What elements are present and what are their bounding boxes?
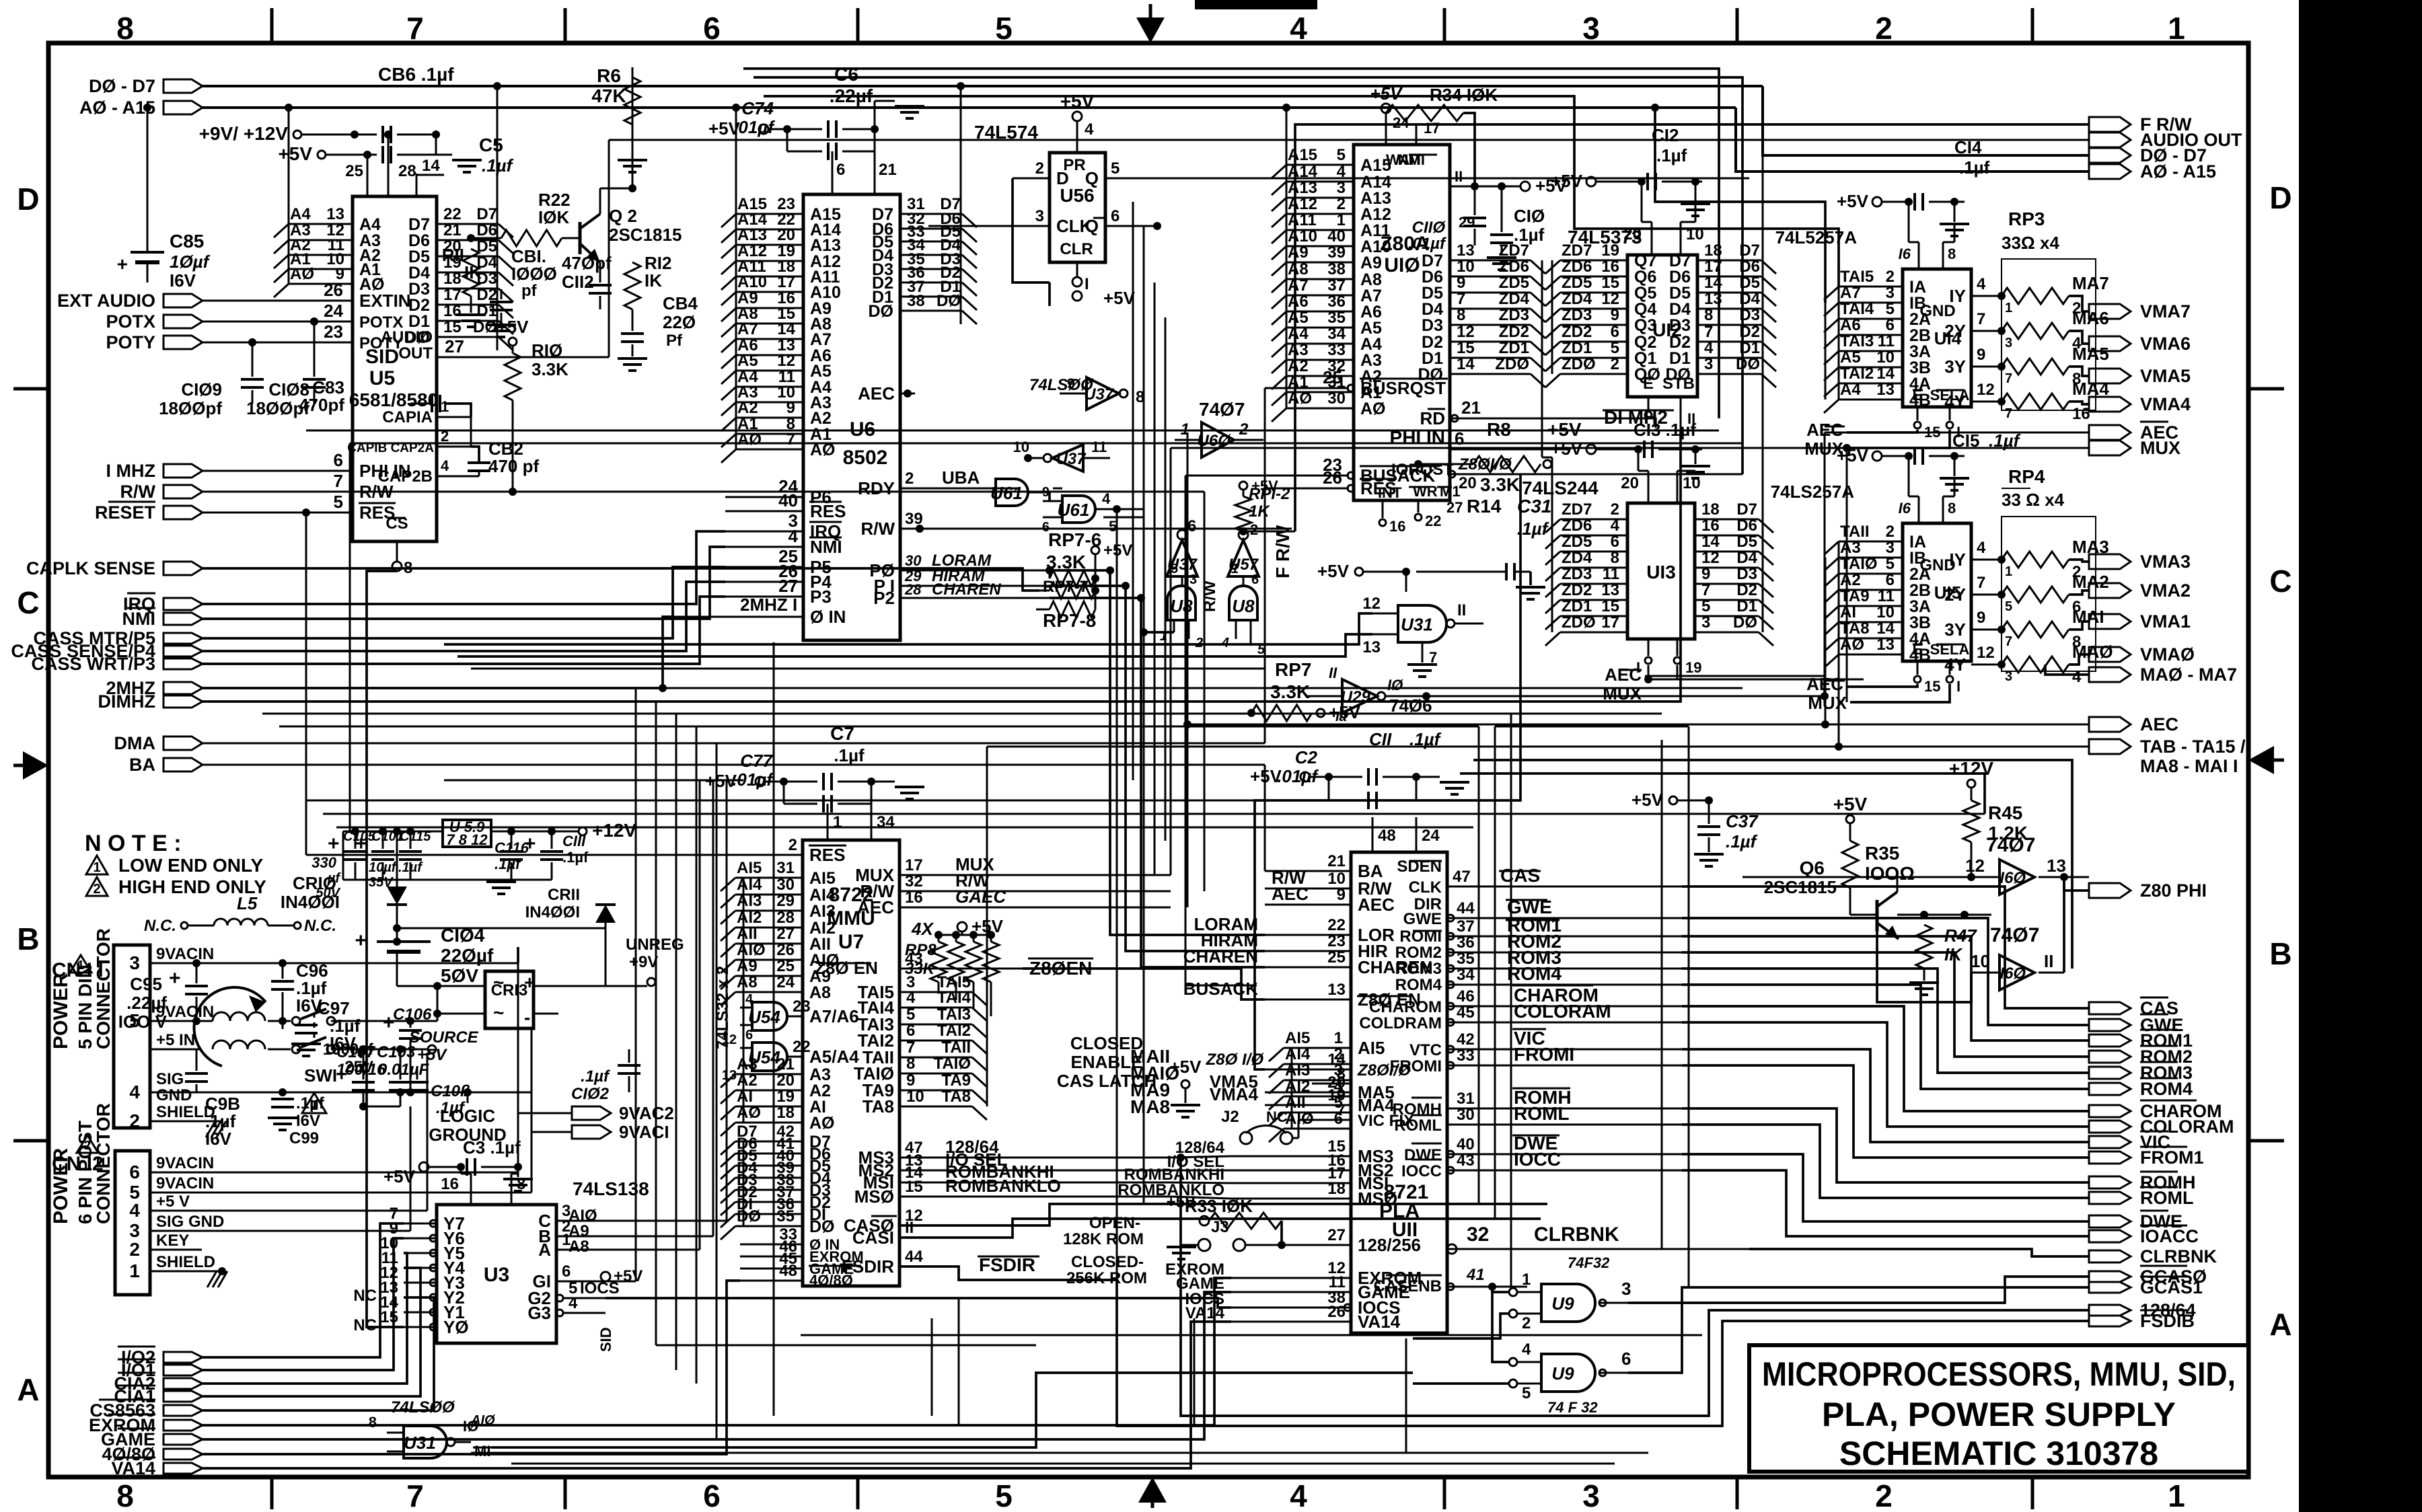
SHIELD ground xyxy=(202,1121,222,1123)
connector tag GCAS0 xyxy=(2089,1271,2131,1282)
svg-text:2: 2 xyxy=(1195,636,1203,650)
svg-text:ROM4: ROM4 xyxy=(1507,963,1562,984)
svg-text:A12: A12 xyxy=(1288,195,1317,213)
svg-text:C95: C95 xyxy=(130,974,162,994)
svg-text:CLR: CLR xyxy=(1060,240,1093,258)
svg-text:+12V: +12V xyxy=(592,820,636,841)
svg-text:ZD6: ZD6 xyxy=(1562,258,1592,276)
svg-text:29: 29 xyxy=(776,892,795,910)
svg-text:ROM3: ROM3 xyxy=(1395,960,1442,978)
svg-text:26: 26 xyxy=(1327,1303,1346,1321)
svg-text:7: 7 xyxy=(786,430,795,449)
svg-text:ZD1: ZD1 xyxy=(1499,339,1529,357)
svg-text:MAI: MAI xyxy=(2072,607,2104,627)
U7 pin GAME 45 xyxy=(740,1268,803,1270)
svg-text:I6: I6 xyxy=(1899,245,1911,262)
svg-text:+: + xyxy=(524,833,536,855)
svg-text:256K ROM: 256K ROM xyxy=(1066,1269,1147,1287)
svg-text:D: D xyxy=(1056,168,1069,188)
svg-text:5: 5 xyxy=(1337,146,1346,164)
U5 pin CAP2B xyxy=(437,476,471,478)
svg-text:MA7: MA7 xyxy=(2072,273,2109,293)
svg-text:2: 2 xyxy=(93,882,100,897)
wire LORAM xyxy=(1050,570,1265,935)
connector tag CHAROM xyxy=(2089,1105,2131,1117)
connector tag 2MHZ xyxy=(163,682,203,694)
inverter U57 up xyxy=(1228,540,1259,576)
svg-text:ZD3: ZD3 xyxy=(1499,306,1529,324)
wire Z80EN across xyxy=(1023,969,1265,999)
svg-text:IY: IY xyxy=(1949,550,1966,570)
svg-text:24: 24 xyxy=(776,973,795,991)
svg-text:40: 40 xyxy=(1457,1135,1475,1154)
wire CIA1 to U3 Y4 xyxy=(203,1268,420,1396)
vertical x1775 xyxy=(1194,1318,1196,1426)
svg-text:6: 6 xyxy=(1111,207,1120,225)
U15 left pins 1A-4B xyxy=(1839,541,1903,543)
svg-text:8: 8 xyxy=(906,1055,915,1073)
IC U56 74LS74 xyxy=(1050,153,1105,262)
svg-text:1: 1 xyxy=(2005,301,2012,315)
svg-text:6: 6 xyxy=(562,1262,571,1281)
svg-text:27: 27 xyxy=(778,576,798,596)
svg-text:A9: A9 xyxy=(737,957,758,975)
svg-text:1: 1 xyxy=(1231,562,1239,576)
svg-text:6: 6 xyxy=(334,450,343,470)
svg-text:13: 13 xyxy=(1362,638,1381,656)
U11 pin Z80I/O 14 xyxy=(1265,1069,1351,1071)
svg-text:7: 7 xyxy=(2005,371,2012,386)
U7 right pins MS3-MS0 xyxy=(900,1157,1171,1159)
CN11 pins xyxy=(150,962,202,965)
ground for U6 caps xyxy=(875,100,895,102)
wire top right bundle 1 xyxy=(1766,43,2220,61)
svg-text:VA14: VA14 xyxy=(111,1458,155,1478)
svg-text:2: 2 xyxy=(1886,268,1895,286)
wire TA feed to U14 xyxy=(764,96,1839,287)
svg-text:16: 16 xyxy=(2072,405,2090,423)
svg-text:AEC: AEC xyxy=(857,897,894,917)
vertical channel left x945 xyxy=(635,688,637,1281)
svg-text:2: 2 xyxy=(1337,195,1346,213)
svg-text:6: 6 xyxy=(1611,533,1619,551)
svg-text:C6: C6 xyxy=(834,64,858,85)
inverter U29 7406 xyxy=(1342,679,1377,713)
svg-text:4: 4 xyxy=(1290,1478,1307,1512)
svg-text:DØ: DØ xyxy=(937,292,961,310)
svg-text:6: 6 xyxy=(836,161,845,179)
svg-text:74 F 32: 74 F 32 xyxy=(1547,1399,1598,1416)
connector tag R/W xyxy=(163,485,203,498)
svg-text:A3: A3 xyxy=(737,1055,758,1073)
U56 pin CLR 1 +5V xyxy=(1076,262,1078,277)
svg-text:µf: µf xyxy=(327,871,342,886)
svg-text:2: 2 xyxy=(1611,500,1619,519)
svg-text:+5V: +5V xyxy=(614,1267,643,1285)
note triangle 2 HIGH END ONLY xyxy=(86,877,108,896)
capacitor C85 10uf 16V xyxy=(147,108,149,252)
wire channel extra 1 xyxy=(262,713,1511,715)
svg-text:YØ: YØ xyxy=(443,1317,469,1337)
svg-text:+: + xyxy=(169,967,181,989)
U56 pin Q 5 xyxy=(1105,178,1749,180)
capacitor C99 xyxy=(271,1098,294,1100)
svg-text:ZD3: ZD3 xyxy=(1562,565,1592,583)
wire AUDIO OUT vertical to tag xyxy=(608,140,610,357)
connector tag ROM3 xyxy=(2089,1067,2131,1079)
svg-text:UI3: UI3 xyxy=(1646,562,1676,582)
svg-text:43: 43 xyxy=(905,950,923,968)
connector tag 1MHZ xyxy=(163,464,203,478)
wire FSDIB long xyxy=(1117,1280,2089,1426)
U5 D-bus trunk up to D0-D7 bus xyxy=(497,86,499,350)
svg-text:Q3: Q3 xyxy=(1634,316,1656,335)
ground U59 caps xyxy=(444,879,552,881)
connector tag EXROM xyxy=(163,1420,203,1431)
wire A feed to U14 xyxy=(1655,108,1825,303)
svg-text:BUSRQST: BUSRQST xyxy=(1360,378,1446,398)
svg-text:MA4: MA4 xyxy=(2072,379,2109,399)
svg-text:15: 15 xyxy=(1601,274,1619,292)
wire CHAREN xyxy=(1050,598,1265,967)
svg-text:MA6: MA6 xyxy=(2072,308,2109,328)
svg-text:6: 6 xyxy=(745,1028,753,1043)
svg-text:CASS WRT/P3: CASS WRT/P3 xyxy=(31,654,155,674)
connector tag DWE xyxy=(2089,1215,2131,1227)
svg-text:13: 13 xyxy=(1876,381,1895,399)
svg-text:8502: 8502 xyxy=(843,447,888,469)
svg-text:PLA, POWER SUPPLY: PLA, POWER SUPPLY xyxy=(1822,1396,2176,1433)
svg-text:3: 3 xyxy=(1621,1279,1631,1299)
wire long h y1985 xyxy=(801,1334,1702,1336)
svg-text:13: 13 xyxy=(1876,636,1895,654)
svg-text:A2: A2 xyxy=(1840,571,1861,589)
wire ROM2 to tag xyxy=(1682,952,2089,1057)
svg-text:R6: R6 xyxy=(597,65,621,86)
svg-text:6: 6 xyxy=(703,11,721,46)
U5 pin RES xyxy=(203,512,353,514)
svg-text:38: 38 xyxy=(907,292,925,310)
power rail lower caps xyxy=(343,879,444,881)
U7 pin phi IN 33 xyxy=(740,1244,803,1246)
wire AEC vertical xyxy=(1187,432,1189,907)
svg-text:ZDØ: ZDØ xyxy=(1562,355,1596,373)
svg-text:ZDØ: ZDØ xyxy=(1562,613,1596,632)
+5V terminal mid xyxy=(1181,1080,1189,1088)
svg-text:ROM2: ROM2 xyxy=(1395,944,1442,962)
svg-text:2: 2 xyxy=(1611,355,1619,373)
svg-text:TAI2: TAI2 xyxy=(1840,365,1874,383)
wire top channel y102 xyxy=(743,69,1719,418)
svg-text:14: 14 xyxy=(1876,619,1895,638)
svg-text:74L5257A: 74L5257A xyxy=(1775,227,1858,248)
svg-text:37: 37 xyxy=(1457,917,1475,936)
connector tag CAPLK SENSE xyxy=(163,562,203,575)
svg-text:C99: C99 xyxy=(289,1129,319,1147)
svg-text:pf: pf xyxy=(521,282,538,300)
connector tag AEC 2 xyxy=(2089,717,2131,732)
U10 ZD trunk xyxy=(1541,260,1543,457)
svg-text:D1: D1 xyxy=(1736,597,1757,615)
svg-text:5: 5 xyxy=(1171,562,1178,576)
transformer coil +5IN xyxy=(213,1041,230,1049)
connector tag VMA5 xyxy=(2089,369,2131,383)
svg-text:WR: WR xyxy=(1413,483,1438,500)
connector tag COLORAM xyxy=(2089,1121,2131,1133)
svg-text:CONNECTOR: CONNECTOR xyxy=(93,928,114,1049)
svg-text:ZD7: ZD7 xyxy=(1562,241,1592,260)
+5V R35 100ohm xyxy=(1846,815,1854,823)
U12 D bus trunk to top xyxy=(1762,155,1764,387)
svg-text:F R/W: F R/W xyxy=(1272,525,1293,578)
wire MS2 I/O SEL join xyxy=(1171,1170,1231,1172)
svg-text:RP7: RP7 xyxy=(1275,659,1311,680)
switch link dashed xyxy=(314,1012,316,1043)
svg-text:.01µf: .01µf xyxy=(1408,235,1446,253)
U5 left pins A4-A0 xyxy=(289,223,353,225)
wire TA bus to tag xyxy=(986,747,988,992)
svg-text:Ià: Ià xyxy=(1335,710,1347,724)
wire U3 outputs up xyxy=(605,1220,727,1222)
svg-text:18ØØpf: 18ØØpf xyxy=(246,398,309,418)
svg-text:9: 9 xyxy=(1701,565,1710,583)
svg-text:R35: R35 xyxy=(1865,843,1899,864)
svg-text:P2: P2 xyxy=(873,588,895,608)
svg-text:DØ - D7: DØ - D7 xyxy=(89,76,155,96)
svg-text:8: 8 xyxy=(1457,306,1465,324)
svg-text:EXT AUDIO: EXT AUDIO xyxy=(57,291,155,311)
svg-text:+5V: +5V xyxy=(708,118,741,139)
svg-text:MSØ: MSØ xyxy=(854,1186,894,1207)
U10 pin RES 26 xyxy=(1265,488,1349,490)
svg-text:8: 8 xyxy=(116,1478,134,1512)
svg-text:7: 7 xyxy=(1977,310,1985,328)
svg-text:8: 8 xyxy=(1611,549,1619,567)
svg-text:.1µf: .1µf xyxy=(1517,519,1549,539)
wire IRQ xyxy=(203,531,725,604)
U7 pin 40/80 48 xyxy=(740,1280,803,1282)
wire GWE to tag xyxy=(1682,918,2089,1025)
svg-text:D7: D7 xyxy=(476,205,497,223)
svg-text:AØ: AØ xyxy=(809,1114,835,1133)
svg-text:7: 7 xyxy=(1457,290,1465,308)
svg-text:D6: D6 xyxy=(476,221,497,239)
svg-text:J3: J3 xyxy=(1211,1218,1229,1236)
connector tag ROML xyxy=(2089,1192,2131,1204)
bridge rectifier CR13 xyxy=(485,971,534,1028)
svg-text:U9: U9 xyxy=(1551,1293,1574,1314)
U7 pin RES 2 xyxy=(740,854,803,856)
svg-text:.1µf: .1µf xyxy=(1656,145,1687,165)
svg-text:C2: C2 xyxy=(1295,747,1318,767)
svg-text:11: 11 xyxy=(1603,565,1619,583)
svg-text:11: 11 xyxy=(1878,332,1895,350)
svg-text:16: 16 xyxy=(1389,518,1405,535)
connector tag TA8-TA15/MA8-MA11 xyxy=(2089,739,2131,754)
svg-text:20: 20 xyxy=(1459,474,1477,492)
wires to CR13 xyxy=(437,985,485,987)
svg-text:M1: M1 xyxy=(1440,483,1461,500)
connector tag CASS MTR/P5 xyxy=(163,633,203,644)
svg-text:ZD5: ZD5 xyxy=(1562,533,1592,551)
wire nested loop right xyxy=(1473,760,2072,969)
U13 ZD trunk 2 xyxy=(1551,457,1553,632)
svg-text:17: 17 xyxy=(777,273,795,291)
svg-text:47Øpf: 47Øpf xyxy=(562,253,612,273)
capacitor C104 220uf 50V xyxy=(393,938,401,946)
svg-text:2: 2 xyxy=(1250,521,1258,538)
svg-text:A5: A5 xyxy=(737,352,758,370)
U14 top pins 16 8 cap C14 xyxy=(1918,242,1920,269)
U3 top pins 16 8 cap C3 xyxy=(470,1174,472,1205)
svg-text:6: 6 xyxy=(1886,571,1895,589)
svg-text:12: 12 xyxy=(722,1032,737,1047)
svg-text:A8: A8 xyxy=(568,1238,589,1256)
svg-text:8: 8 xyxy=(1948,500,1956,517)
svg-text:AII: AII xyxy=(737,925,758,943)
U10 top pin 24 WAIT +5V xyxy=(1385,113,1387,145)
U56 pin D 2 xyxy=(1013,178,1050,180)
svg-text:ZD3: ZD3 xyxy=(1562,306,1592,324)
svg-text:35: 35 xyxy=(776,1207,795,1225)
svg-text:A11: A11 xyxy=(1288,211,1317,229)
svg-text:3.3K: 3.3K xyxy=(531,359,568,379)
U6 left address pins A15-A0 xyxy=(736,213,803,215)
svg-text:AI3: AI3 xyxy=(809,902,836,921)
svg-text:TA9: TA9 xyxy=(941,1071,971,1090)
svg-text:D3: D3 xyxy=(1669,316,1691,335)
svg-text:3Y: 3Y xyxy=(1944,356,1966,377)
svg-text:TAI4: TAI4 xyxy=(937,989,971,1007)
svg-text:34: 34 xyxy=(1327,325,1346,343)
U5 pin CAP1A xyxy=(437,416,471,418)
svg-text:74F32: 74F32 xyxy=(1568,1254,1610,1271)
svg-text:32: 32 xyxy=(1467,1223,1489,1246)
svg-text:3.3K: 3.3K xyxy=(1270,681,1310,702)
U6 pin AEC xyxy=(900,393,915,395)
connector tag ROM1 xyxy=(2089,1034,2131,1047)
svg-text:ROMBANKLO: ROMBANKLO xyxy=(945,1176,1061,1196)
svg-text:ROM4: ROM4 xyxy=(2140,1079,2193,1099)
svg-text:48: 48 xyxy=(1378,827,1396,845)
svg-text:A15: A15 xyxy=(1360,156,1391,175)
svg-text:A: A xyxy=(17,1372,39,1407)
svg-text:Ø IN: Ø IN xyxy=(810,607,846,627)
svg-text:9: 9 xyxy=(1977,609,1985,627)
svg-text:10: 10 xyxy=(1876,348,1895,367)
svg-text:Pf: Pf xyxy=(666,332,683,350)
svg-text:ZD5: ZD5 xyxy=(1562,274,1592,292)
svg-text:30: 30 xyxy=(776,876,795,894)
wire 40/80 long xyxy=(203,1281,740,1454)
svg-text:48: 48 xyxy=(779,1262,797,1280)
svg-text:5: 5 xyxy=(995,11,1013,46)
svg-text:DØ: DØ xyxy=(1736,355,1760,373)
svg-text:C: C xyxy=(2269,564,2291,599)
svg-text:II: II xyxy=(1455,168,1463,185)
svg-text:CLRBNK: CLRBNK xyxy=(2140,1246,2217,1267)
top center arrow xyxy=(1149,4,1152,27)
svg-text:G3: G3 xyxy=(527,1303,551,1323)
svg-text:TAI3: TAI3 xyxy=(937,1006,971,1024)
svg-text:40: 40 xyxy=(778,490,798,511)
svg-text:20: 20 xyxy=(1621,474,1639,492)
vertical channel mid x1684 xyxy=(1132,202,1134,780)
vertical channel mid x1660 xyxy=(1116,509,1118,1280)
wire U9 pin5 feed xyxy=(1413,1382,1509,1385)
svg-text:C106: C106 xyxy=(393,1006,432,1024)
svg-text:ZD1: ZD1 xyxy=(1562,339,1592,357)
svg-text:28: 28 xyxy=(398,162,416,180)
connector CN12 6 PIN POST xyxy=(115,1151,150,1295)
svg-text:+9V/ +12V: +9V/ +12V xyxy=(199,123,289,144)
svg-text:TA8: TA8 xyxy=(1840,619,1870,638)
capacitor C83 470pf xyxy=(444,404,471,417)
svg-text:AØ - A15: AØ - A15 xyxy=(2140,161,2216,182)
svg-text:KEY: KEY xyxy=(156,1232,189,1250)
svg-text:12: 12 xyxy=(1701,549,1720,567)
svg-text:27: 27 xyxy=(1327,1226,1346,1244)
svg-text:ZD7: ZD7 xyxy=(1499,241,1529,260)
U7 right pins TA15-TA8 xyxy=(900,991,972,993)
wire ROMH to tag xyxy=(1682,1108,2089,1182)
svg-text:TAIØ: TAIØ xyxy=(933,1055,971,1073)
connector tag I/O2 xyxy=(163,1352,203,1363)
svg-text:IOACC: IOACC xyxy=(2140,1226,2199,1246)
svg-text:3: 3 xyxy=(1189,572,1197,587)
wire MA0-MA7 tag feed xyxy=(2045,665,2089,675)
connector tag RESET xyxy=(163,506,203,519)
vertical channel left x1035 xyxy=(696,726,698,1384)
svg-text:AI5: AI5 xyxy=(809,869,836,888)
svg-text:J2: J2 xyxy=(1221,1108,1239,1126)
U7 top pins 1 34 caps C7 C77 xyxy=(827,804,829,840)
svg-text:II: II xyxy=(1457,601,1466,619)
U6 lower left pins xyxy=(725,496,803,498)
svg-text:15: 15 xyxy=(380,1308,398,1326)
wire long horizontal y1230 xyxy=(336,827,1473,829)
svg-text:+5 IN: +5 IN xyxy=(156,1031,195,1049)
connector tag 128/64 xyxy=(2089,1305,2131,1316)
vertical channel left x1005 xyxy=(675,714,677,1370)
base rail to Q6 xyxy=(1709,914,1850,915)
black scan band right edge xyxy=(2299,0,2422,1512)
svg-text:6: 6 xyxy=(1621,1349,1631,1369)
wire U15 TA trunk to TA bus xyxy=(1838,654,1840,747)
svg-text:38: 38 xyxy=(1327,260,1346,278)
connector tag AUDIO OUT xyxy=(2089,133,2131,147)
U11 right pins DWE IOACC xyxy=(1447,1154,1682,1156)
svg-text:II: II xyxy=(905,1219,914,1237)
svg-text:TAI5: TAI5 xyxy=(1840,268,1874,286)
svg-text:.22µf: .22µf xyxy=(126,993,167,1013)
power rail 9VACIN to CR10 C104 xyxy=(202,1020,213,1022)
svg-text:2: 2 xyxy=(1875,11,1893,46)
svg-text:SIG GND: SIG GND xyxy=(156,1213,224,1231)
svg-text:74LS257A: 74LS257A xyxy=(1771,482,1855,502)
svg-text:16: 16 xyxy=(1601,258,1619,276)
wire CASS SENSE/P4 xyxy=(203,582,725,651)
capacitor C37 .1uf xyxy=(1669,796,1677,804)
wire h 1930 xyxy=(605,1297,959,1299)
svg-text:VMA4: VMA4 xyxy=(2140,394,2191,414)
svg-text:ZD7: ZD7 xyxy=(1562,500,1592,519)
svg-text:8: 8 xyxy=(116,11,134,46)
vertical channel mid x1716 xyxy=(1154,282,1156,874)
svg-text:15: 15 xyxy=(1924,678,1940,695)
connector tag VMA4 xyxy=(2089,397,2131,412)
wire ROM1 to tag xyxy=(1682,936,2089,1041)
